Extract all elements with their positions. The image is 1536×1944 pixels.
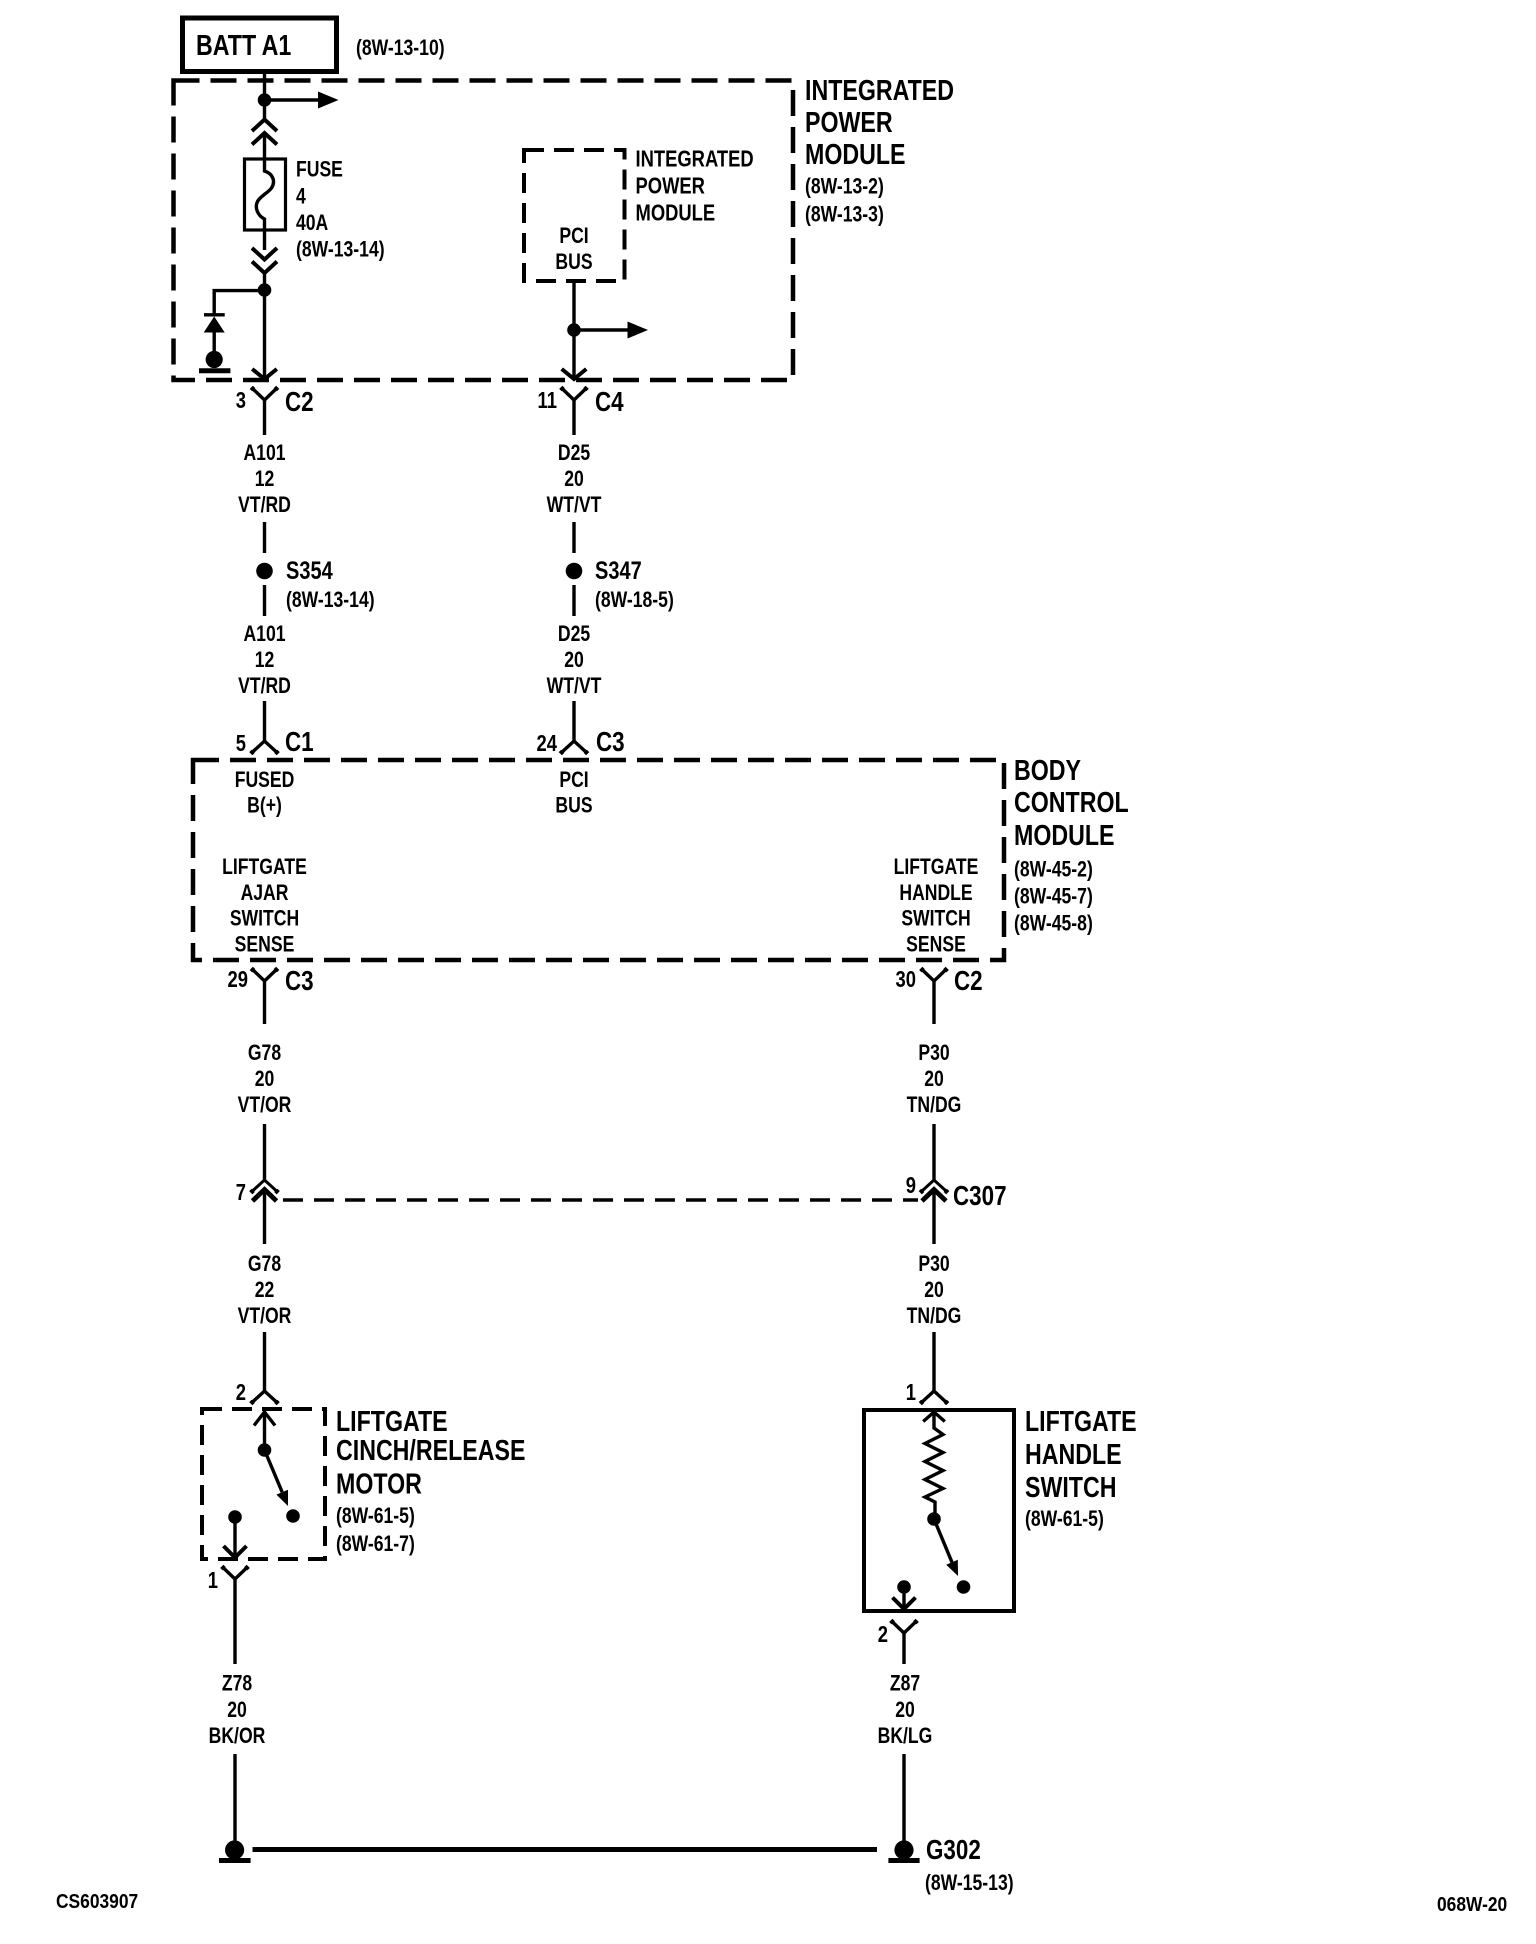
connector symbol pin 2 motor [250, 1391, 278, 1404]
svg-text:(8W-13-14): (8W-13-14) [296, 238, 385, 262]
connector C2 symbol pin 30 [920, 968, 947, 1024]
svg-text:INTEGRATED: INTEGRATED [805, 73, 954, 106]
switch blade with arrow [265, 1450, 289, 1506]
svg-text:29: 29 [228, 967, 248, 992]
svg-text:068W-20: 068W-20 [1437, 1893, 1507, 1915]
connector C4 symbol [560, 387, 587, 435]
connector pass-through chevrons up [252, 120, 277, 145]
wire segment [572, 585, 575, 616]
svg-text:12: 12 [255, 648, 275, 672]
wire segment [932, 1189, 935, 1244]
connector C3 symbol pin 29 [251, 968, 278, 1024]
svg-text:WT/VT: WT/VT [547, 674, 602, 698]
svg-text:P30: P30 [918, 1252, 949, 1276]
battery feed box BATT A1 [183, 18, 337, 72]
wire segment [263, 585, 266, 616]
PCI BUS inner dashed box [524, 150, 625, 281]
svg-text:BUS: BUS [555, 794, 592, 818]
svg-text:20: 20 [255, 1067, 275, 1091]
svg-text:A101: A101 [243, 622, 285, 646]
in-line connector C307 left half pin 7 [250, 1180, 278, 1201]
arrowhead at IPM border pin 3 [252, 369, 277, 379]
body control module label [1014, 753, 1129, 851]
svg-text:D25: D25 [558, 622, 590, 646]
svg-text:BATT A1: BATT A1 [196, 28, 291, 61]
ground inside IPM [199, 351, 230, 371]
svg-text:C307: C307 [953, 1181, 1007, 1212]
svg-text:SWITCH: SWITCH [901, 907, 970, 931]
svg-text:CINCH/RELEASE: CINCH/RELEASE [336, 1433, 525, 1466]
svg-text:(8W-13-14): (8W-13-14) [286, 588, 375, 612]
inner integrated power module label [636, 147, 754, 226]
svg-text:5: 5 [236, 731, 246, 756]
splice S354 [256, 563, 273, 580]
wire from PCI BUS down [572, 281, 575, 378]
junction node to diode branch [258, 283, 272, 297]
body control module dashed box [193, 760, 1004, 960]
svg-text:LIFTGATE: LIFTGATE [222, 855, 307, 879]
svg-text:PCI: PCI [559, 224, 588, 248]
label LIFTGATE AJAR SWITCH SENSE [222, 855, 307, 957]
junction node [258, 93, 272, 107]
integrated power module label [805, 73, 954, 170]
svg-text:3: 3 [236, 388, 246, 413]
svg-text:LIFTGATE: LIFTGATE [1025, 1404, 1137, 1437]
integrated power module dashed box [174, 81, 794, 381]
svg-text:C2: C2 [285, 387, 314, 418]
wire segment [572, 701, 575, 741]
wire label A101 12 VT/RD [238, 622, 291, 698]
switch pivot node right [927, 1512, 941, 1526]
svg-text:(8W-13-10): (8W-13-10) [356, 36, 445, 60]
connector symbol pin 2 below switch [890, 1620, 917, 1664]
ground bus wire [253, 1847, 878, 1852]
svg-text:POWER: POWER [636, 174, 705, 199]
switch contact node right [957, 1580, 971, 1594]
svg-text:(8W-61-5): (8W-61-5) [336, 1504, 415, 1528]
svg-text:2: 2 [878, 1622, 888, 1647]
liftgate cinch/release motor dashed box [202, 1409, 325, 1559]
svg-text:S347: S347 [595, 557, 642, 585]
liftgate handle switch box [864, 1410, 1014, 1611]
wire segment [263, 701, 266, 741]
wire segment [932, 1124, 935, 1180]
svg-text:POWER: POWER [805, 105, 893, 138]
wire to ground left [233, 1754, 236, 1842]
svg-text:MODULE: MODULE [1014, 818, 1114, 851]
svg-text:(8W-61-5): (8W-61-5) [1025, 1507, 1104, 1531]
wire segment [572, 522, 575, 553]
connector C1 symbol [250, 741, 278, 754]
svg-text:BUS: BUS [555, 250, 592, 274]
junction node [567, 323, 581, 337]
svg-text:11: 11 [538, 388, 557, 413]
svg-text:VT/OR: VT/OR [238, 1093, 292, 1117]
svg-text:(8W-61-7): (8W-61-7) [336, 1532, 415, 1556]
connector symbol pin 1 below motor [221, 1566, 248, 1664]
svg-text:22: 22 [255, 1278, 275, 1302]
svg-text:BK/LG: BK/LG [878, 1724, 933, 1748]
liftgate handle switch label [1025, 1404, 1137, 1503]
arrowhead into motor [254, 1412, 275, 1426]
svg-text:Z78: Z78 [222, 1672, 252, 1696]
wire segment [263, 1124, 266, 1180]
svg-text:1: 1 [906, 1380, 916, 1405]
fuse label FUSE 4 40A [296, 158, 343, 236]
svg-text:VT/OR: VT/OR [238, 1304, 292, 1328]
svg-text:9: 9 [906, 1173, 916, 1198]
svg-text:VT/RD: VT/RD [238, 674, 291, 698]
wire label A101 12 VT/RD [238, 441, 291, 517]
arrowhead at switch border pin 2 [893, 1598, 916, 1610]
svg-text:TN/DG: TN/DG [907, 1093, 962, 1117]
switch exit contact node [897, 1580, 911, 1594]
label LIFTGATE HANDLE SWITCH SENSE [894, 855, 979, 957]
svg-text:40A: 40A [296, 211, 328, 235]
svg-text:C1: C1 [285, 727, 314, 758]
wire to switch pivot [263, 1412, 266, 1444]
connector symbol pin 1 switch [920, 1391, 948, 1404]
wire to fuse [263, 133, 266, 160]
svg-text:CS603907: CS603907 [56, 1890, 138, 1912]
svg-text:7: 7 [236, 1180, 246, 1205]
svg-text:MOTOR: MOTOR [336, 1467, 422, 1500]
svg-text:INTEGRATED: INTEGRATED [636, 147, 754, 172]
svg-text:20: 20 [924, 1067, 944, 1091]
svg-text:20: 20 [924, 1278, 944, 1302]
fuse 4 40A [245, 159, 286, 230]
switch blade with arrow right [934, 1519, 958, 1576]
svg-text:(8W-45-7): (8W-45-7) [1014, 885, 1093, 909]
svg-text:20: 20 [564, 648, 584, 672]
wire segment [263, 1189, 266, 1244]
wire label P30 20 TN/DG [907, 1041, 962, 1117]
svg-text:1: 1 [208, 1568, 218, 1593]
connector pass-through chevrons down [252, 248, 277, 273]
svg-text:TN/DG: TN/DG [907, 1304, 962, 1328]
svg-text:BK/OR: BK/OR [209, 1724, 266, 1748]
connector C3 symbol [560, 741, 588, 754]
wire from BATT A1 down [263, 71, 266, 120]
svg-text:2: 2 [236, 1380, 246, 1405]
wire to switch exit [902, 1587, 905, 1609]
svg-text:Z87: Z87 [890, 1672, 920, 1696]
ground symbol left [219, 1840, 251, 1860]
svg-text:12: 12 [255, 467, 275, 491]
wire segment [263, 522, 266, 553]
svg-text:C4: C4 [595, 387, 624, 418]
PCI BUS label [555, 224, 592, 274]
diode [204, 315, 225, 352]
svg-text:G78: G78 [248, 1252, 281, 1276]
wire label Z78 20 BK/OR [209, 1672, 266, 1749]
svg-text:B(+): B(+) [247, 794, 282, 818]
svg-text:20: 20 [895, 1698, 915, 1722]
svg-text:P30: P30 [918, 1041, 949, 1065]
ground symbol right G302 [888, 1840, 919, 1860]
svg-text:HANDLE: HANDLE [899, 881, 972, 905]
switch pivot node [258, 1443, 272, 1457]
svg-text:20: 20 [564, 467, 584, 491]
svg-text:30: 30 [896, 967, 916, 992]
svg-text:SWITCH: SWITCH [1025, 1470, 1116, 1503]
svg-text:MODULE: MODULE [636, 201, 716, 226]
svg-text:SENSE: SENSE [235, 933, 295, 957]
svg-text:S354: S354 [286, 557, 333, 585]
wire segment [932, 1332, 935, 1391]
arrowhead into switch [923, 1412, 945, 1422]
svg-text:(8W-18-5): (8W-18-5) [595, 588, 674, 612]
svg-text:(8W-45-2): (8W-45-2) [1014, 858, 1093, 882]
svg-text:G302: G302 [926, 1835, 981, 1866]
wire label Z87 20 BK/LG [878, 1672, 933, 1749]
switch contact node [286, 1509, 300, 1523]
label FUSED B(+) [235, 768, 295, 818]
svg-text:BODY: BODY [1014, 753, 1081, 786]
arrowhead at motor border pin 1 [224, 1546, 247, 1558]
label PCI BUS [555, 768, 592, 818]
svg-text:HANDLE: HANDLE [1025, 1437, 1122, 1470]
svg-text:20: 20 [227, 1698, 247, 1722]
wire to ground right [902, 1754, 905, 1842]
svg-text:C3: C3 [285, 966, 314, 997]
svg-text:A101: A101 [243, 441, 285, 465]
svg-text:VT/RD: VT/RD [238, 493, 291, 517]
connector C2 symbol [251, 387, 278, 435]
wire below fuse [263, 230, 266, 250]
svg-text:AJAR: AJAR [241, 881, 289, 905]
svg-text:D25: D25 [558, 441, 590, 465]
svg-text:FUSED: FUSED [235, 768, 295, 792]
svg-text:(8W-13-2): (8W-13-2) [805, 175, 884, 199]
svg-text:(8W-15-13): (8W-15-13) [925, 1871, 1014, 1895]
arrowhead at IPM border pin 11 [562, 369, 587, 379]
liftgate cinch/release motor label [336, 1404, 525, 1500]
svg-text:24: 24 [537, 731, 558, 756]
resistor [925, 1412, 943, 1513]
motor exit contact node [228, 1510, 242, 1524]
wire label D25 20 WT/VT lower [547, 622, 602, 698]
wire label P30 20 TN/DG lower [907, 1252, 962, 1328]
svg-text:(8W-45-8): (8W-45-8) [1014, 912, 1093, 936]
wire label D25 20 WT/VT [547, 441, 602, 517]
svg-text:G78: G78 [248, 1041, 281, 1065]
svg-text:FUSE: FUSE [296, 158, 343, 182]
splice S347 [566, 563, 583, 580]
svg-text:C3: C3 [596, 727, 625, 758]
svg-text:PCI: PCI [559, 768, 588, 792]
svg-text:SWITCH: SWITCH [230, 907, 299, 931]
in-line connector C307 right half pin 9 [920, 1180, 948, 1201]
wire branch to diode [214, 291, 264, 315]
svg-text:WT/VT: WT/VT [547, 493, 602, 517]
wire to motor exit [233, 1517, 236, 1557]
svg-text:MODULE: MODULE [805, 137, 905, 170]
wire to C2 border [263, 272, 266, 378]
wire segment [263, 1332, 266, 1391]
wire label G78 20 VT/OR [238, 1041, 292, 1117]
svg-text:LIFTGATE: LIFTGATE [894, 855, 979, 879]
dashed harness line C307 [283, 1198, 918, 1202]
svg-text:SENSE: SENSE [906, 933, 966, 957]
wire label G78 22 VT/OR [238, 1252, 292, 1328]
svg-text:C2: C2 [954, 966, 983, 997]
svg-text:4: 4 [296, 185, 306, 209]
svg-text:CONTROL: CONTROL [1014, 785, 1129, 818]
branch arrow right [574, 322, 648, 339]
branch arrow right [265, 92, 339, 109]
svg-text:(8W-13-3): (8W-13-3) [805, 203, 884, 227]
